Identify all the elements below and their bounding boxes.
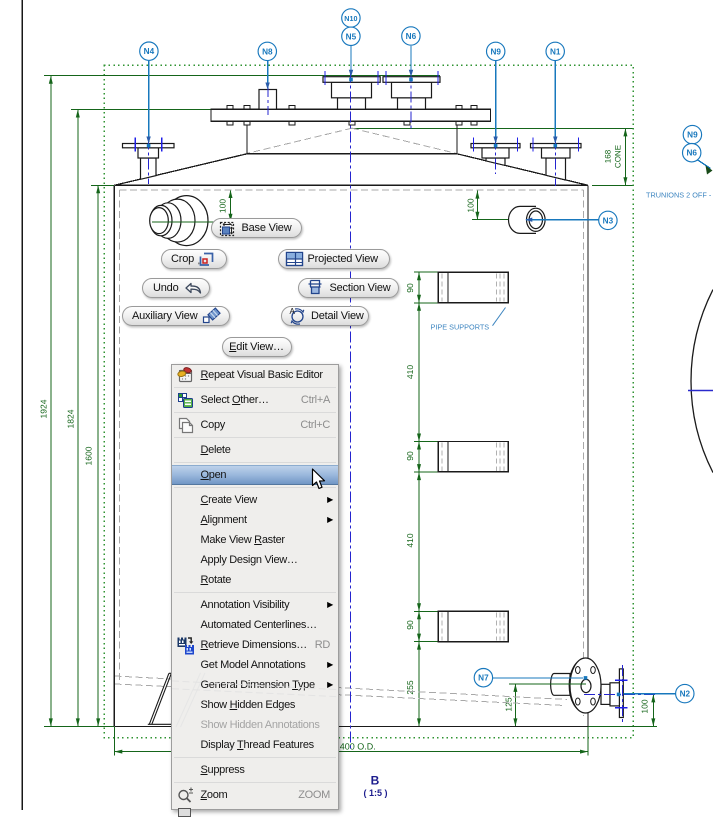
svg-text:CONE: CONE bbox=[614, 145, 623, 168]
svg-text:A: A bbox=[290, 307, 296, 316]
svg-text:PIPE SUPPORTS: PIPE SUPPORTS bbox=[431, 323, 490, 332]
svg-text:255: 255 bbox=[405, 680, 415, 694]
svg-text:N7: N7 bbox=[478, 674, 489, 683]
svg-text:N6: N6 bbox=[686, 149, 697, 158]
svg-text:90: 90 bbox=[405, 451, 415, 461]
svg-text:1824: 1824 bbox=[66, 409, 76, 428]
svg-text:N4: N4 bbox=[144, 47, 155, 56]
svg-text:410: 410 bbox=[405, 365, 415, 379]
svg-text:N2: N2 bbox=[680, 690, 691, 699]
svg-text:N8: N8 bbox=[262, 47, 273, 56]
svg-text:B: B bbox=[371, 774, 380, 788]
svg-text:90: 90 bbox=[405, 620, 415, 630]
svg-text:TRUNIONS 2 OFF -: TRUNIONS 2 OFF - bbox=[646, 191, 712, 200]
svg-text:N5: N5 bbox=[346, 32, 357, 41]
svg-text:N10: N10 bbox=[344, 14, 357, 23]
svg-text:1924: 1924 bbox=[39, 399, 49, 418]
svg-text:100: 100 bbox=[640, 699, 650, 713]
svg-text:168: 168 bbox=[604, 149, 613, 163]
svg-text:410: 410 bbox=[405, 533, 415, 547]
svg-text:N6: N6 bbox=[406, 32, 417, 41]
svg-text:N9: N9 bbox=[687, 131, 698, 140]
svg-text:90: 90 bbox=[405, 283, 415, 293]
svg-text:N9: N9 bbox=[490, 47, 501, 56]
svg-text:100: 100 bbox=[465, 198, 475, 212]
svg-text:( 1:5 ): ( 1:5 ) bbox=[363, 788, 387, 798]
svg-text:N1: N1 bbox=[550, 47, 561, 56]
svg-text:100: 100 bbox=[218, 199, 228, 213]
svg-text:125: 125 bbox=[504, 697, 514, 711]
svg-text:1600: 1600 bbox=[84, 446, 94, 465]
svg-text:N3: N3 bbox=[603, 216, 614, 225]
